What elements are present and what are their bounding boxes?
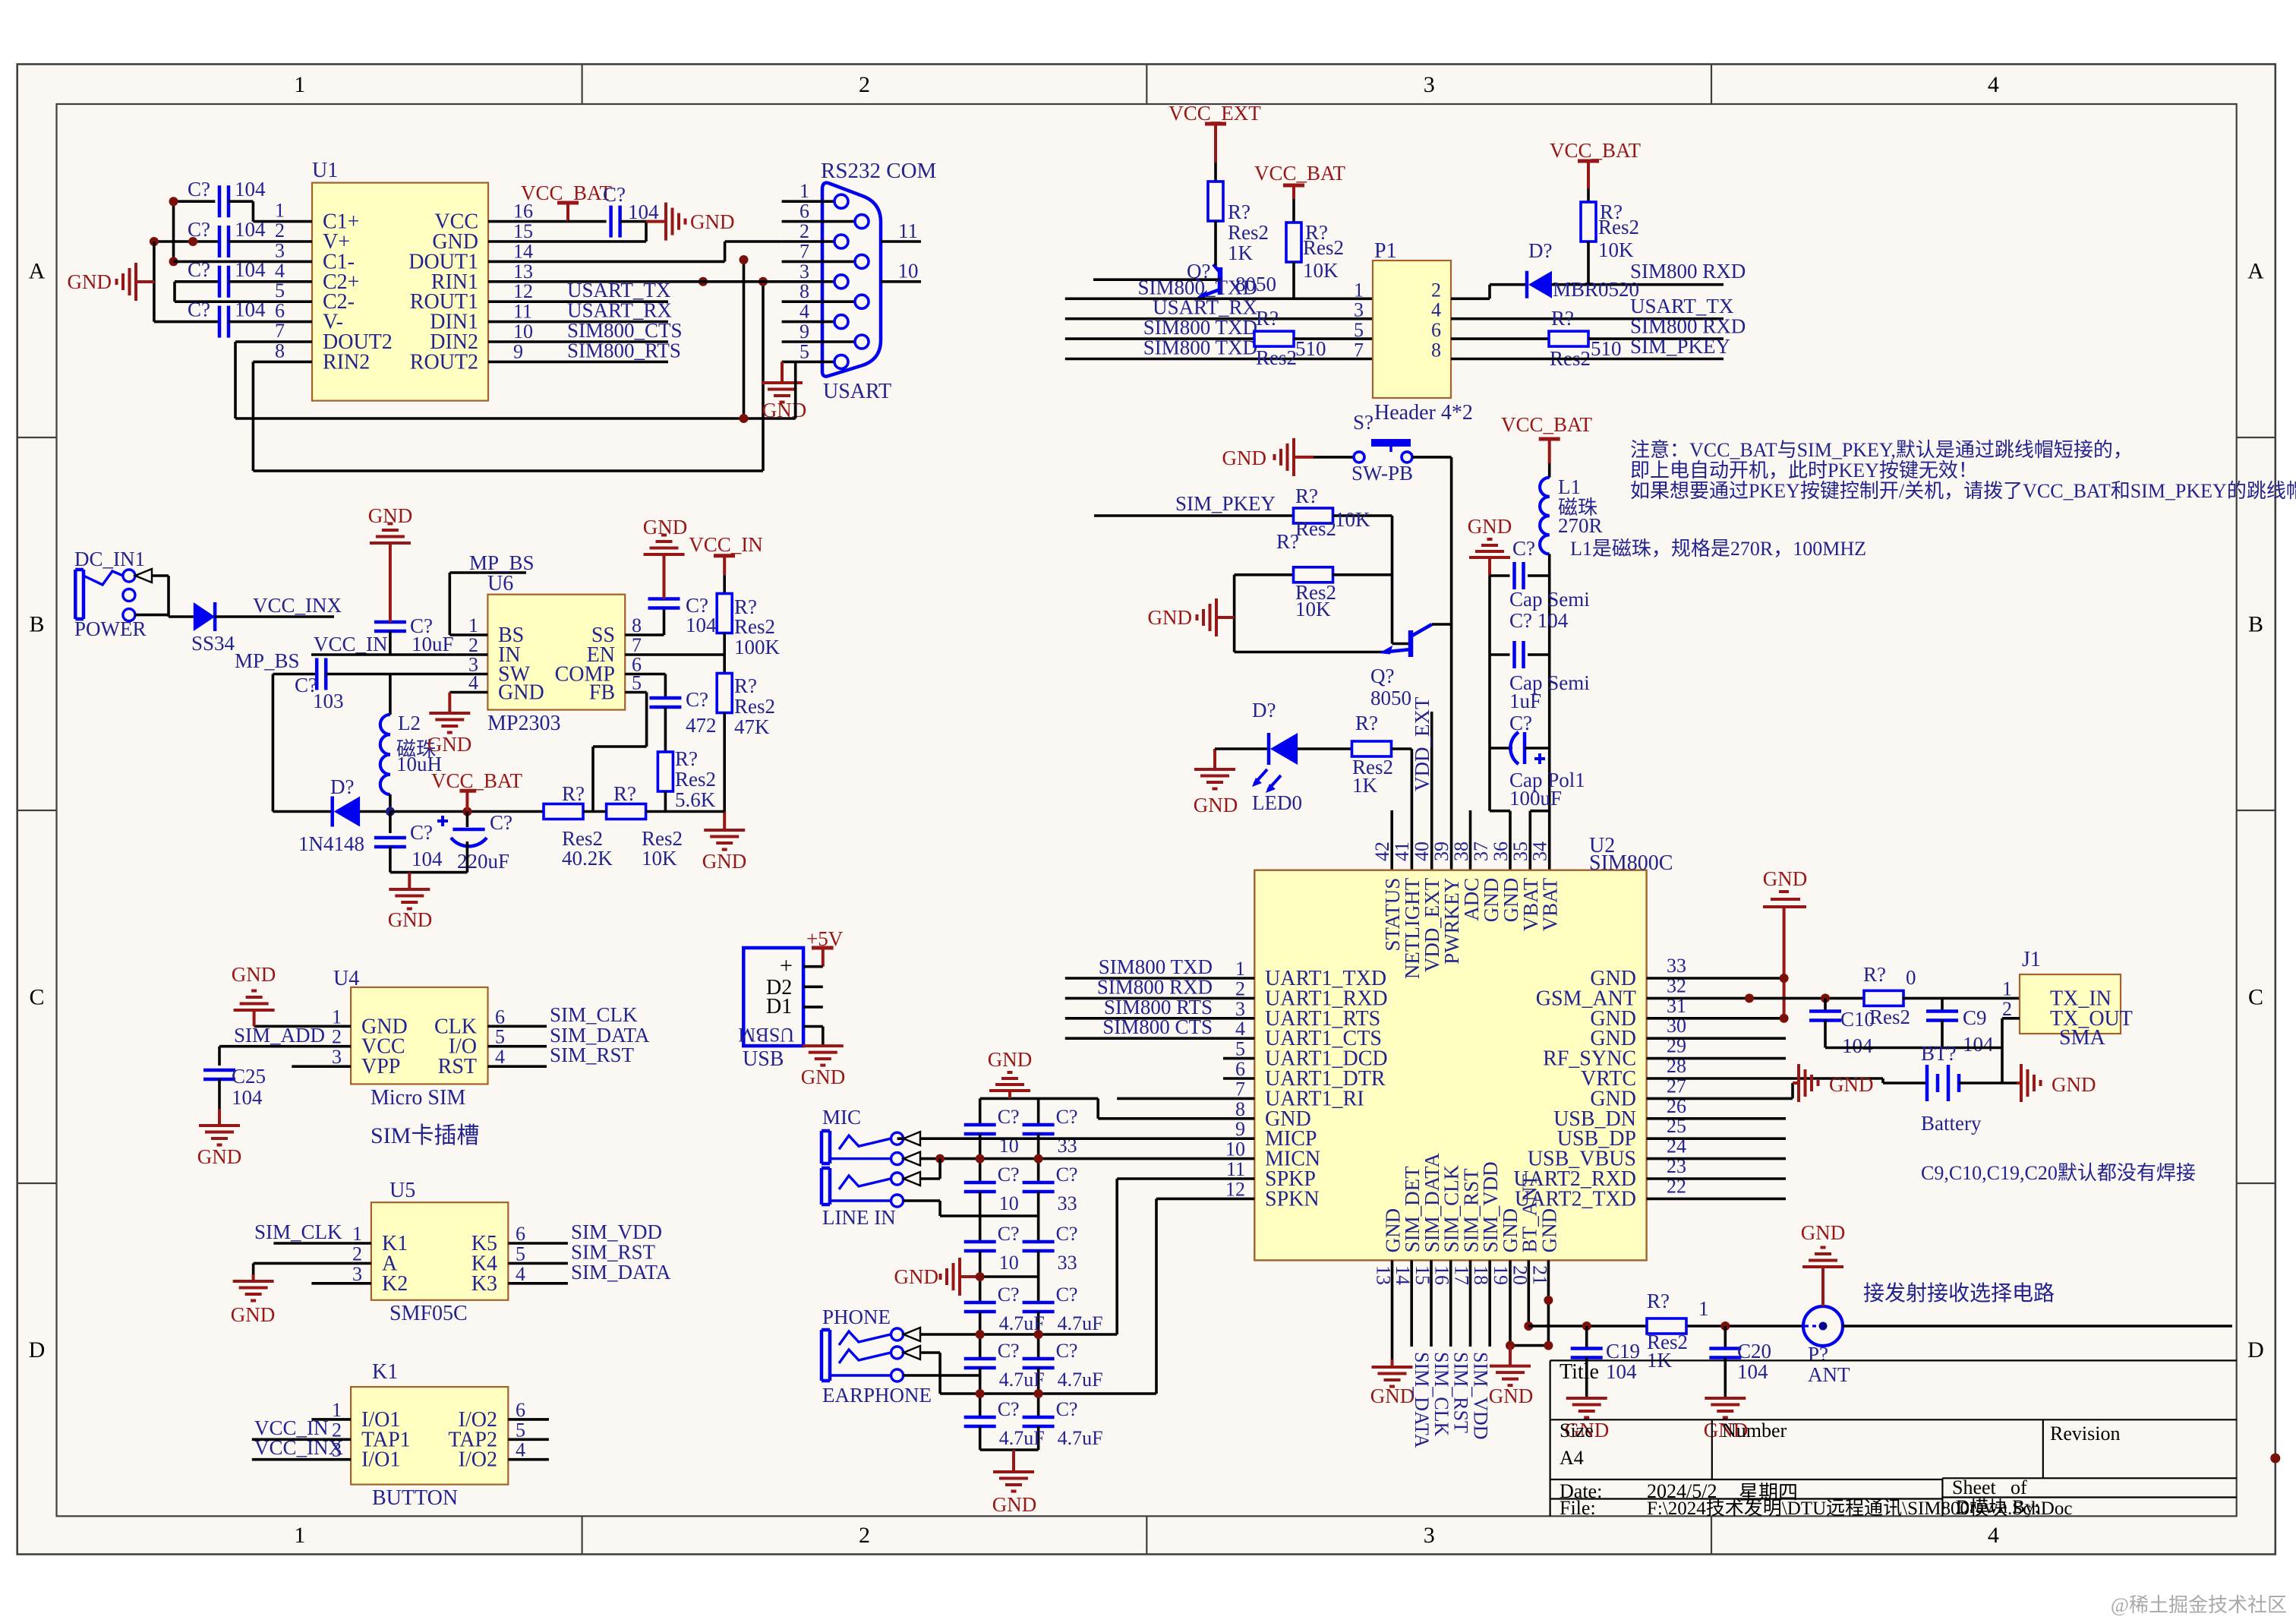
svg-text:7: 7 bbox=[1354, 339, 1364, 362]
svg-text:5: 5 bbox=[1354, 319, 1364, 341]
svg-text:SIM_CLK: SIM_CLK bbox=[550, 1003, 638, 1026]
svg-text:100K: 100K bbox=[734, 636, 781, 658]
svg-text:GND: GND bbox=[197, 1145, 242, 1168]
svg-text:J1: J1 bbox=[2022, 948, 2041, 971]
svg-text:K1: K1 bbox=[372, 1360, 398, 1384]
svg-text:A: A bbox=[29, 259, 46, 284]
svg-text:LINE IN: LINE IN bbox=[822, 1206, 896, 1229]
svg-text:R?: R? bbox=[1295, 485, 1318, 507]
svg-text:USART: USART bbox=[823, 380, 891, 403]
svg-text:of: of bbox=[2011, 1476, 2027, 1498]
svg-text:5: 5 bbox=[495, 1026, 505, 1048]
svg-text:104: 104 bbox=[1606, 1360, 1637, 1383]
svg-text:100uF: 100uF bbox=[1509, 787, 1562, 810]
svg-text:GND: GND bbox=[388, 908, 433, 931]
svg-text:C?: C? bbox=[188, 258, 210, 281]
svg-text:C?: C? bbox=[1056, 1284, 1078, 1306]
svg-text:C25: C25 bbox=[232, 1065, 266, 1088]
svg-text:MP2303: MP2303 bbox=[487, 712, 560, 735]
svg-text:SIM_DATA: SIM_DATA bbox=[571, 1261, 671, 1284]
svg-text:4.7uF: 4.7uF bbox=[1058, 1369, 1103, 1391]
svg-text:FB: FB bbox=[589, 681, 615, 705]
svg-text:GND: GND bbox=[702, 850, 747, 873]
svg-text:GND: GND bbox=[427, 733, 472, 756]
svg-text:Micro SIM: Micro SIM bbox=[371, 1086, 465, 1110]
svg-text:@稀土掘金技术社区: @稀土掘金技术社区 bbox=[2111, 1594, 2287, 1616]
svg-text:2: 2 bbox=[332, 1026, 342, 1048]
svg-text:Res2: Res2 bbox=[1303, 236, 1344, 259]
svg-text:0: 0 bbox=[1906, 966, 1916, 989]
svg-text:U4: U4 bbox=[333, 967, 359, 990]
svg-text:4.7uF: 4.7uF bbox=[1058, 1312, 1103, 1334]
svg-text:35: 35 bbox=[1509, 841, 1531, 861]
svg-text:8050: 8050 bbox=[1370, 687, 1411, 709]
svg-text:4.7uF: 4.7uF bbox=[999, 1427, 1045, 1449]
svg-text:GND: GND bbox=[1468, 515, 1512, 538]
svg-text:39: 39 bbox=[1430, 841, 1452, 861]
svg-text:即上电自动开机，此时PKEY按键无效！: 即上电自动开机，此时PKEY按键无效！ bbox=[1630, 459, 1978, 482]
svg-text:Cap Semi: Cap Semi bbox=[1509, 588, 1590, 611]
svg-text:P?: P? bbox=[1808, 1343, 1828, 1366]
svg-text:L1是磁珠，规格是270R，100MHZ: L1是磁珠，规格是270R，100MHZ bbox=[1570, 538, 1866, 560]
svg-text:7: 7 bbox=[799, 240, 809, 262]
svg-text:C?: C? bbox=[1512, 537, 1535, 560]
svg-text:Size: Size bbox=[1560, 1419, 1594, 1441]
svg-text:40.2K: 40.2K bbox=[562, 847, 613, 870]
svg-text:1: 1 bbox=[332, 1006, 342, 1028]
svg-text:Drawn By:: Drawn By: bbox=[1956, 1497, 2039, 1517]
svg-text:USB: USB bbox=[743, 1047, 784, 1071]
svg-text:R?: R? bbox=[675, 747, 698, 770]
svg-text:A4: A4 bbox=[1560, 1447, 1584, 1469]
svg-text:GND: GND bbox=[1222, 447, 1267, 469]
svg-text:File:: File: bbox=[1560, 1497, 1596, 1519]
svg-text:MIC: MIC bbox=[822, 1106, 861, 1129]
svg-text:1uF: 1uF bbox=[1509, 690, 1541, 712]
svg-text:如果想要通过PKEY按键控制开/关机，请拨了VCC_BAT和: 如果想要通过PKEY按键控制开/关机，请拨了VCC_BAT和SIM_PKEY的跳… bbox=[1630, 480, 2296, 502]
svg-text:GND: GND bbox=[368, 504, 413, 527]
svg-text:D?: D? bbox=[330, 775, 354, 798]
svg-text:GND: GND bbox=[231, 1303, 276, 1326]
svg-text:D?: D? bbox=[1252, 699, 1276, 722]
svg-text:C?: C? bbox=[188, 218, 210, 241]
svg-text:9: 9 bbox=[799, 320, 809, 343]
svg-text:SIM800 RXD: SIM800 RXD bbox=[1630, 315, 1746, 338]
svg-text:L1: L1 bbox=[1558, 475, 1581, 498]
svg-text:SPKN: SPKN bbox=[1265, 1187, 1320, 1211]
svg-text:104: 104 bbox=[235, 218, 266, 241]
svg-text:R?: R? bbox=[613, 782, 636, 805]
svg-text:1: 1 bbox=[1698, 1297, 1709, 1320]
svg-text:6: 6 bbox=[516, 1399, 525, 1421]
svg-text:10K: 10K bbox=[1335, 508, 1370, 531]
svg-text:C?: C? bbox=[410, 821, 433, 844]
svg-text:SIM卡插槽: SIM卡插槽 bbox=[371, 1123, 479, 1148]
svg-text:2: 2 bbox=[799, 220, 809, 242]
svg-text:MP_BS: MP_BS bbox=[235, 649, 300, 672]
svg-text:VCC_EXT: VCC_EXT bbox=[1168, 102, 1261, 125]
svg-text:VCC_INX: VCC_INX bbox=[253, 594, 342, 617]
svg-text:104: 104 bbox=[232, 1086, 263, 1109]
svg-text:2: 2 bbox=[352, 1243, 362, 1265]
svg-text:10: 10 bbox=[898, 260, 919, 283]
svg-text:11: 11 bbox=[898, 219, 918, 242]
svg-text:C?: C? bbox=[188, 178, 210, 201]
svg-text:3: 3 bbox=[1235, 998, 1245, 1020]
svg-text:8: 8 bbox=[1431, 339, 1441, 362]
svg-text:VDD_EXT: VDD_EXT bbox=[1411, 696, 1433, 791]
svg-text:VBAT: VBAT bbox=[1539, 877, 1562, 931]
svg-text:33: 33 bbox=[1058, 1252, 1077, 1274]
svg-text:C?: C? bbox=[998, 1106, 1020, 1128]
svg-text:R?: R? bbox=[1276, 530, 1299, 553]
svg-text:SIM_PKEY: SIM_PKEY bbox=[1630, 335, 1730, 358]
svg-text:1: 1 bbox=[1235, 958, 1245, 980]
svg-text:8: 8 bbox=[1235, 1098, 1245, 1120]
svg-text:C?: C? bbox=[1509, 712, 1532, 734]
svg-text:F:\2024技术发明\DTU远程通讯\SIM800: F:\2024技术发明\DTU远程通讯\SIM800 bbox=[1647, 1498, 1970, 1519]
svg-text:I/O2: I/O2 bbox=[459, 1448, 497, 1472]
svg-text:GND: GND bbox=[988, 1048, 1033, 1071]
svg-text:VCC_BAT: VCC_BAT bbox=[1254, 162, 1346, 185]
svg-text:D1: D1 bbox=[766, 995, 792, 1018]
svg-text:ROUT2: ROUT2 bbox=[410, 350, 478, 374]
svg-text:6: 6 bbox=[495, 1006, 505, 1028]
svg-text:220uF: 220uF bbox=[457, 850, 509, 873]
svg-text:MBR0520: MBR0520 bbox=[1553, 278, 1639, 301]
svg-text:1: 1 bbox=[294, 72, 305, 97]
svg-text:GND: GND bbox=[762, 399, 807, 422]
svg-text:11: 11 bbox=[513, 301, 532, 323]
svg-text:K3: K3 bbox=[471, 1272, 497, 1296]
svg-text:BUTTON: BUTTON bbox=[372, 1486, 458, 1510]
svg-text:C?: C? bbox=[1056, 1340, 1078, 1362]
svg-text:33: 33 bbox=[1058, 1192, 1077, 1214]
svg-text:5: 5 bbox=[1235, 1038, 1245, 1060]
svg-text:D: D bbox=[2247, 1337, 2264, 1362]
svg-text:3: 3 bbox=[1424, 72, 1435, 97]
svg-text:GND: GND bbox=[643, 516, 688, 538]
svg-text:104: 104 bbox=[235, 178, 266, 201]
svg-text:R?: R? bbox=[734, 674, 757, 697]
svg-text:VCC_BAT: VCC_BAT bbox=[1501, 413, 1593, 436]
svg-text:Res2: Res2 bbox=[1228, 221, 1269, 244]
svg-text:BT?: BT? bbox=[1921, 1042, 1957, 1065]
svg-text:GND: GND bbox=[1537, 1208, 1560, 1253]
svg-text:8: 8 bbox=[799, 280, 809, 302]
svg-text:Res2: Res2 bbox=[1295, 517, 1336, 540]
svg-text:104: 104 bbox=[628, 201, 659, 223]
svg-text:C?: C? bbox=[998, 1340, 1020, 1362]
svg-text:33: 33 bbox=[1667, 955, 1686, 977]
svg-text:1: 1 bbox=[468, 614, 478, 636]
svg-text:12: 12 bbox=[513, 280, 533, 302]
svg-text:RS232 COM: RS232 COM bbox=[821, 159, 936, 183]
svg-text:42: 42 bbox=[1371, 841, 1393, 861]
svg-text:103: 103 bbox=[313, 690, 344, 712]
svg-text:VCC_BAT: VCC_BAT bbox=[1550, 139, 1642, 162]
svg-text:Res2: Res2 bbox=[734, 695, 775, 718]
svg-text:1: 1 bbox=[1354, 279, 1364, 301]
svg-text:9: 9 bbox=[513, 340, 523, 362]
svg-text:SMA: SMA bbox=[2059, 1026, 2105, 1050]
svg-text:R?: R? bbox=[1647, 1290, 1670, 1312]
svg-text:R?: R? bbox=[1863, 963, 1886, 986]
svg-text:SIM_RST: SIM_RST bbox=[1450, 1352, 1472, 1433]
svg-text:10K: 10K bbox=[1295, 598, 1331, 620]
svg-text:4: 4 bbox=[1431, 299, 1441, 321]
svg-text:C?: C? bbox=[603, 183, 626, 206]
svg-text:1: 1 bbox=[2002, 977, 2012, 999]
svg-text:510: 510 bbox=[1591, 337, 1622, 360]
svg-text:2: 2 bbox=[1431, 279, 1441, 301]
svg-text:3: 3 bbox=[332, 1046, 342, 1068]
svg-text:4: 4 bbox=[1235, 1018, 1245, 1040]
svg-text:VCC_BAT: VCC_BAT bbox=[431, 769, 523, 792]
svg-text:R?: R? bbox=[1551, 307, 1574, 330]
svg-text:3: 3 bbox=[1424, 1523, 1435, 1548]
svg-text:GND: GND bbox=[801, 1066, 846, 1088]
svg-text:40: 40 bbox=[1411, 841, 1433, 861]
svg-text:510: 510 bbox=[1295, 337, 1326, 360]
svg-text:GND: GND bbox=[232, 963, 276, 986]
svg-text:6: 6 bbox=[516, 1223, 525, 1245]
svg-text:1K: 1K bbox=[1228, 242, 1254, 264]
svg-text:7: 7 bbox=[1235, 1078, 1245, 1100]
svg-text:1: 1 bbox=[332, 1399, 342, 1421]
svg-text:Res2: Res2 bbox=[1869, 1006, 1910, 1028]
svg-text:SIM_CLK: SIM_CLK bbox=[254, 1220, 342, 1243]
svg-text:C?: C? bbox=[1056, 1223, 1078, 1245]
svg-text:47K: 47K bbox=[734, 715, 770, 738]
svg-text:SIM_ADD: SIM_ADD bbox=[234, 1024, 325, 1047]
svg-text:C: C bbox=[29, 985, 44, 1010]
svg-text:VCC_IN: VCC_IN bbox=[689, 533, 763, 556]
svg-text:LED0: LED0 bbox=[1252, 791, 1302, 814]
svg-text:R?: R? bbox=[1256, 307, 1279, 330]
svg-text:11: 11 bbox=[1226, 1158, 1245, 1180]
svg-text:3: 3 bbox=[799, 261, 809, 283]
svg-text:104: 104 bbox=[1737, 1360, 1768, 1383]
svg-text:C?: C? bbox=[410, 614, 433, 637]
svg-text:6: 6 bbox=[1235, 1058, 1245, 1080]
svg-text:10: 10 bbox=[999, 1192, 1019, 1214]
svg-text:GND: GND bbox=[68, 270, 112, 293]
svg-text:6: 6 bbox=[1431, 319, 1441, 341]
svg-text:SIM_CLK: SIM_CLK bbox=[1430, 1352, 1452, 1436]
svg-text:472: 472 bbox=[686, 714, 717, 737]
svg-text:PHONE: PHONE bbox=[822, 1306, 891, 1328]
svg-text:P1: P1 bbox=[1374, 239, 1397, 263]
svg-text:SIM_RST: SIM_RST bbox=[550, 1044, 635, 1066]
svg-text:GND: GND bbox=[498, 681, 544, 705]
svg-text:C20: C20 bbox=[1737, 1340, 1771, 1362]
svg-text:A: A bbox=[2247, 259, 2264, 284]
svg-text:GND: GND bbox=[1489, 1385, 1534, 1407]
svg-text:1: 1 bbox=[294, 1523, 305, 1548]
svg-text:GND: GND bbox=[1763, 867, 1808, 890]
svg-text:5: 5 bbox=[516, 1419, 525, 1441]
svg-text:GND: GND bbox=[1194, 794, 1238, 816]
svg-text:DC_IN1: DC_IN1 bbox=[74, 548, 145, 570]
svg-text:GND: GND bbox=[690, 210, 735, 233]
svg-text:1: 1 bbox=[352, 1223, 362, 1245]
svg-text:2: 2 bbox=[859, 72, 870, 97]
svg-text:5.6K: 5.6K bbox=[675, 788, 716, 811]
svg-text:C?: C? bbox=[1056, 1106, 1078, 1128]
svg-text:41: 41 bbox=[1391, 841, 1413, 861]
svg-text:Q?: Q? bbox=[1370, 665, 1394, 687]
svg-text:Title: Title bbox=[1560, 1360, 1599, 1384]
svg-text:SMF05C: SMF05C bbox=[389, 1302, 468, 1325]
svg-text:B: B bbox=[2248, 612, 2263, 637]
svg-text:GND: GND bbox=[894, 1265, 939, 1288]
svg-text:19: 19 bbox=[1490, 1265, 1512, 1285]
svg-text:38: 38 bbox=[1450, 841, 1472, 861]
svg-text:1K: 1K bbox=[1352, 774, 1378, 797]
svg-text:104: 104 bbox=[235, 298, 266, 321]
svg-text:C: C bbox=[2248, 985, 2263, 1010]
svg-text:C9: C9 bbox=[1963, 1006, 1987, 1029]
svg-text:SIM800 CTS: SIM800 CTS bbox=[1102, 1015, 1213, 1038]
svg-text:4: 4 bbox=[799, 301, 809, 323]
svg-text:USART_TX: USART_TX bbox=[1630, 295, 1734, 317]
svg-text:SIM800_RTS: SIM800_RTS bbox=[567, 339, 681, 362]
svg-text:Res2: Res2 bbox=[675, 768, 716, 791]
svg-text:VCC_BAT: VCC_BAT bbox=[521, 182, 613, 204]
svg-text:GND: GND bbox=[1148, 606, 1193, 629]
svg-text:I/O1: I/O1 bbox=[361, 1448, 400, 1472]
svg-text:C?: C? bbox=[998, 1164, 1020, 1186]
svg-text:6: 6 bbox=[799, 201, 809, 223]
svg-text:VCC_INX: VCC_INX bbox=[254, 1436, 344, 1459]
svg-text:C?: C? bbox=[490, 811, 512, 834]
svg-text:13: 13 bbox=[513, 261, 533, 283]
svg-text:VCC_IN: VCC_IN bbox=[314, 633, 388, 655]
svg-text:R?: R? bbox=[1228, 201, 1250, 223]
svg-text:POWER: POWER bbox=[74, 617, 147, 640]
svg-text:D?: D? bbox=[1528, 239, 1552, 262]
svg-text:104: 104 bbox=[412, 848, 443, 870]
svg-text:U6: U6 bbox=[487, 572, 513, 595]
svg-text:34: 34 bbox=[1529, 841, 1551, 861]
svg-text:Res2: Res2 bbox=[734, 615, 775, 638]
svg-text:Battery: Battery bbox=[1921, 1112, 1982, 1135]
svg-text:3: 3 bbox=[1354, 299, 1364, 321]
svg-text:Res2: Res2 bbox=[1598, 216, 1639, 238]
svg-text:5: 5 bbox=[516, 1243, 525, 1265]
svg-text:10: 10 bbox=[999, 1252, 1019, 1274]
svg-text:2: 2 bbox=[2002, 998, 2012, 1020]
svg-text:C?: C? bbox=[686, 688, 708, 711]
svg-text:1: 1 bbox=[799, 180, 809, 202]
svg-text:10: 10 bbox=[1225, 1138, 1245, 1160]
svg-text:R?: R? bbox=[1355, 712, 1378, 734]
svg-text:104: 104 bbox=[686, 614, 717, 636]
svg-text:1N4148: 1N4148 bbox=[298, 832, 364, 855]
svg-text:C?: C? bbox=[998, 1284, 1020, 1306]
svg-text:USBM: USBM bbox=[738, 1024, 794, 1046]
svg-text:GND: GND bbox=[992, 1493, 1037, 1516]
svg-text:4: 4 bbox=[495, 1046, 505, 1068]
svg-text:GND: GND bbox=[1801, 1221, 1846, 1244]
svg-text:EARPHONE: EARPHONE bbox=[822, 1384, 932, 1407]
svg-text:ANT: ANT bbox=[1808, 1363, 1850, 1386]
svg-text:C?: C? bbox=[998, 1223, 1020, 1245]
svg-text:4: 4 bbox=[1988, 72, 1999, 97]
svg-text:4.7uF: 4.7uF bbox=[999, 1369, 1045, 1391]
svg-text:10: 10 bbox=[513, 320, 533, 343]
svg-text:MP_BS: MP_BS bbox=[469, 551, 535, 574]
svg-text:SIM_DATA: SIM_DATA bbox=[1411, 1352, 1433, 1448]
svg-text:Number: Number bbox=[1722, 1419, 1787, 1441]
svg-text:C?: C? bbox=[1056, 1164, 1078, 1186]
svg-text:SIM800 RXD: SIM800 RXD bbox=[1630, 260, 1746, 283]
svg-text:C?: C? bbox=[1056, 1398, 1078, 1420]
svg-text:2: 2 bbox=[859, 1523, 870, 1548]
svg-text:SIM_PKEY: SIM_PKEY bbox=[1175, 492, 1276, 515]
svg-text:Res2: Res2 bbox=[1256, 346, 1297, 369]
svg-text:3: 3 bbox=[352, 1263, 362, 1285]
svg-text:R?: R? bbox=[562, 782, 585, 805]
svg-text:接发射接收选择电路: 接发射接收选择电路 bbox=[1863, 1281, 2055, 1306]
svg-text:1: 1 bbox=[275, 200, 285, 222]
svg-text:15: 15 bbox=[513, 220, 533, 242]
svg-text:C?: C? bbox=[188, 298, 210, 321]
svg-text:8: 8 bbox=[632, 614, 642, 636]
svg-text:4.7uF: 4.7uF bbox=[1058, 1427, 1103, 1449]
svg-text:VPP: VPP bbox=[361, 1055, 400, 1078]
svg-text:U5: U5 bbox=[389, 1179, 415, 1202]
svg-text:270R: 270R bbox=[1558, 514, 1603, 537]
svg-text:K2: K2 bbox=[382, 1272, 408, 1296]
svg-text:C?: C? bbox=[998, 1398, 1020, 1420]
svg-text:C9,C10,C19,C20默认都没有焊接: C9,C10,C19,C20默认都没有焊接 bbox=[1921, 1162, 2196, 1184]
svg-text:RST: RST bbox=[438, 1055, 477, 1078]
svg-text:10K: 10K bbox=[1598, 238, 1634, 261]
svg-text:9: 9 bbox=[1235, 1118, 1245, 1140]
svg-text:RIN2: RIN2 bbox=[323, 350, 370, 374]
svg-text:Revision: Revision bbox=[2050, 1422, 2120, 1445]
svg-text:5: 5 bbox=[799, 340, 809, 362]
svg-text:2: 2 bbox=[1235, 977, 1245, 999]
svg-text:L2: L2 bbox=[398, 712, 421, 734]
svg-text:GND: GND bbox=[1829, 1073, 1874, 1096]
svg-text:D: D bbox=[29, 1337, 46, 1362]
svg-text:Sheet: Sheet bbox=[1952, 1476, 1997, 1498]
svg-text:U1: U1 bbox=[312, 159, 338, 182]
svg-text:注意：VCC_BAT与SIM_PKEY,默认是通过跳线帽短接: 注意：VCC_BAT与SIM_PKEY,默认是通过跳线帽短接的， bbox=[1630, 439, 2133, 461]
svg-text:GND: GND bbox=[1370, 1385, 1415, 1407]
svg-text:SS34: SS34 bbox=[191, 632, 235, 655]
svg-text:Header 4*2: Header 4*2 bbox=[1374, 401, 1473, 425]
svg-text:37: 37 bbox=[1470, 841, 1492, 861]
svg-text:4: 4 bbox=[516, 1263, 525, 1285]
svg-text:GND: GND bbox=[2052, 1073, 2096, 1096]
svg-text:104: 104 bbox=[1842, 1034, 1873, 1057]
svg-text:104: 104 bbox=[235, 258, 266, 281]
svg-text:14: 14 bbox=[513, 240, 533, 262]
svg-text:36: 36 bbox=[1490, 841, 1512, 861]
svg-text:10K: 10K bbox=[642, 847, 677, 870]
svg-text:B: B bbox=[29, 612, 44, 637]
svg-text:+: + bbox=[780, 953, 793, 978]
svg-text:10K: 10K bbox=[1303, 259, 1339, 282]
svg-text:4: 4 bbox=[1988, 1523, 1999, 1548]
svg-text:4: 4 bbox=[516, 1439, 525, 1461]
svg-text:104: 104 bbox=[1963, 1033, 1994, 1056]
svg-text:12: 12 bbox=[1225, 1178, 1245, 1200]
